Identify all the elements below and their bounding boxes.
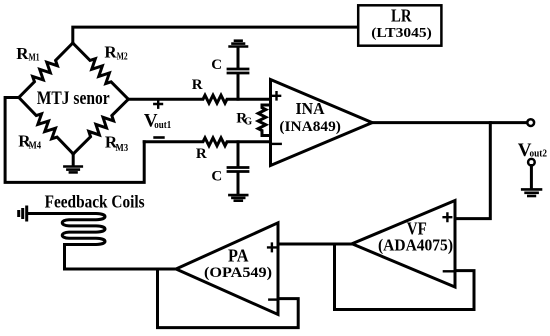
svg-text:C: C [211, 57, 222, 73]
wire + resistor R (inverting input line) [144, 138, 270, 146]
minus sign PA input [269, 298, 278, 300]
svg-text:R: R [192, 77, 203, 93]
svg-text:Feedback Coils: Feedback Coils [45, 192, 145, 212]
svg-text:R: R [104, 43, 117, 62]
svg-text:(ADA4075): (ADA4075) [378, 236, 453, 255]
svg-text:M1: M1 [29, 52, 40, 64]
svg-text:PA: PA [228, 246, 249, 266]
svg-text:M3: M3 [116, 142, 129, 154]
wire: VF feedback loop [335, 244, 475, 310]
svg-text:R: R [16, 44, 29, 63]
op-amp PA U4 triangle (points left) [176, 223, 278, 315]
svg-text:G: G [244, 117, 252, 128]
plus sign VF input [444, 213, 452, 221]
op-amp VF U2 triangle (points left) [352, 201, 455, 288]
wire: INA output to terminal [372, 121, 527, 124]
resistor RG with stubs to INA [262, 105, 271, 136]
resistor RM1 (bridge arm top-left) [16, 39, 77, 100]
resistor RM3 (bridge arm bottom-right) [70, 96, 132, 158]
ground (sideways, left of coil) [25, 207, 28, 220]
plus sign PA input [268, 244, 276, 252]
capacitor C (top) [237, 47, 240, 68]
ground (inverted, above top capacitor) [230, 45, 247, 48]
svg-text:(OPA549): (OPA549) [204, 265, 272, 281]
svg-text:out2: out2 [530, 148, 548, 160]
svg-text:(INA849): (INA849) [279, 119, 341, 135]
reference terminal circle [528, 159, 535, 166]
ground at bridge bottom node [72, 154, 75, 165]
wire + resistor R (non-inverting input line) [128, 95, 270, 103]
resistor RM4 (bridge arm bottom-left) [15, 94, 77, 157]
wire: output junction down to VF non-inverting input [455, 123, 490, 219]
minus sign VF input [444, 270, 452, 272]
wire: bridge left node to left rail, bottom rail, up to inverting line [5, 98, 144, 183]
svg-text:M2: M2 [117, 50, 128, 62]
svg-text:LR: LR [391, 6, 412, 26]
wire: PA output to feedback coil [65, 245, 177, 270]
svg-text:INA: INA [296, 99, 326, 118]
inductor feedback coil [28, 214, 106, 245]
LR regulator box [358, 5, 441, 45]
minus sign INA input [273, 143, 281, 145]
svg-text:(LT3045): (LT3045) [371, 26, 432, 41]
svg-text:R: R [196, 146, 207, 162]
capacitor C (bottom) [237, 142, 240, 166]
wire: VF output to PA non-inverting input [278, 243, 352, 246]
wire: bridge top node up and right to LR box [73, 27, 358, 43]
svg-text:M4: M4 [29, 139, 42, 151]
svg-text:MTJ senor: MTJ senor [37, 88, 110, 109]
svg-text:out1: out1 [154, 119, 171, 131]
plus sign INA input [273, 92, 280, 99]
ground (below bottom capacitor) [229, 194, 247, 197]
resistor RM2 (bridge arm top-right) [69, 39, 132, 102]
svg-text:C: C [211, 169, 222, 185]
plus sign at Vout1 [154, 100, 162, 107]
ground below reference terminal [530, 166, 533, 189]
wire: PA feedback loop [158, 269, 299, 328]
minus sign at Vout1 [155, 136, 164, 139]
op-amp INA U1 triangle [271, 80, 373, 166]
output terminal circle Vout2 [527, 119, 534, 126]
